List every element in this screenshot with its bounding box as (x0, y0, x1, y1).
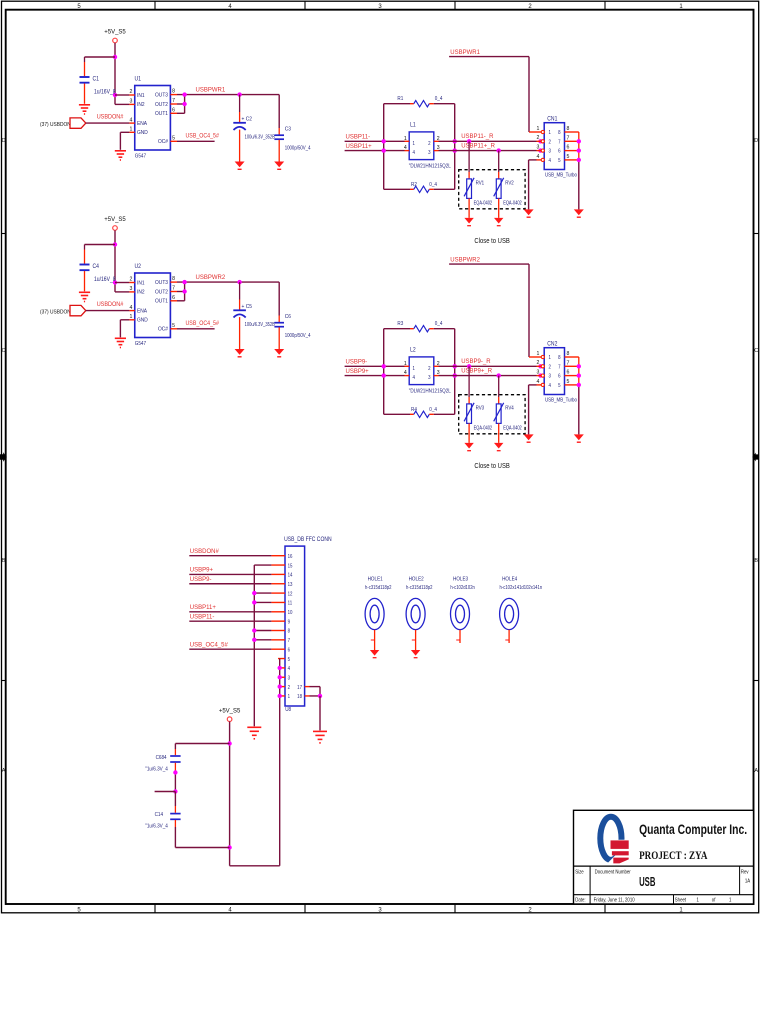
svg-text:USBP9+: USBP9+ (346, 369, 370, 375)
svg-text:USB_MB_Turbo: USB_MB_Turbo (545, 397, 577, 404)
svg-text:"DLW21HN1215Q2L: "DLW21HN1215Q2L (409, 163, 451, 169)
svg-text:4: 4 (537, 379, 540, 385)
svg-text:2: 2 (129, 277, 132, 283)
svg-text:7: 7 (566, 135, 569, 141)
svg-text:3: 3 (288, 675, 291, 681)
svg-text:4: 4 (129, 117, 132, 123)
svg-text:USB_MB_Turbo: USB_MB_Turbo (545, 172, 577, 179)
svg-text:G547: G547 (135, 341, 146, 347)
svg-text:h-c102x141d102x141n: h-c102x141d102x141n (500, 585, 543, 590)
svg-text:GND: GND (137, 130, 148, 136)
svg-text:0_4: 0_4 (429, 406, 437, 412)
svg-text:USBP11-_R: USBP11-_R (461, 134, 494, 140)
svg-text:h-c315d118p2: h-c315d118p2 (406, 585, 433, 590)
svg-text:1: 1 (697, 897, 700, 904)
svg-text:1: 1 (413, 140, 416, 146)
svg-text:8: 8 (566, 126, 569, 132)
svg-text:USBDON#: USBDON# (97, 302, 124, 308)
svg-text:1: 1 (129, 314, 132, 320)
svg-text:ENA: ENA (137, 121, 147, 127)
svg-text:USBDON#: USBDON# (190, 549, 220, 555)
svg-text:1u/16V_8: 1u/16V_8 (94, 277, 116, 283)
svg-text:h-c315d118p2: h-c315d118p2 (365, 585, 392, 590)
svg-text:U2: U2 (135, 264, 141, 270)
svg-text:EQA-0402: EQA-0402 (503, 200, 522, 206)
svg-text:1: 1 (404, 361, 407, 367)
svg-text:3: 3 (428, 150, 431, 156)
svg-text:RV3: RV3 (476, 405, 485, 411)
svg-text:11: 11 (288, 600, 293, 606)
svg-text:CN2: CN2 (547, 341, 557, 347)
svg-text:Size: Size (575, 869, 584, 876)
svg-text:7: 7 (172, 286, 175, 292)
svg-text:0_4: 0_4 (435, 96, 443, 102)
svg-text:Close to USB: Close to USB (474, 463, 510, 471)
svg-text:1A: 1A (745, 878, 751, 885)
svg-text:4: 4 (129, 305, 132, 311)
svg-text:(37) USBDON#: (37) USBDON# (40, 309, 74, 315)
svg-text:+5V_S5: +5V_S5 (219, 708, 241, 714)
svg-text:6: 6 (288, 647, 291, 653)
svg-text:OUT2: OUT2 (155, 289, 168, 295)
svg-text:USB_OC4_5#: USB_OC4_5# (186, 133, 220, 139)
svg-text:3: 3 (549, 148, 552, 154)
svg-text:C3: C3 (285, 126, 291, 132)
svg-text:USBP9-: USBP9- (346, 360, 368, 366)
svg-text:R3: R3 (397, 321, 403, 327)
svg-text:USBPWR1: USBPWR1 (450, 50, 480, 56)
svg-text:"1u/6.3V_4: "1u/6.3V_4 (145, 766, 168, 772)
svg-text:ENA: ENA (137, 308, 147, 314)
svg-text:U8: U8 (285, 707, 291, 713)
svg-text:8: 8 (566, 351, 569, 357)
svg-text:2: 2 (537, 135, 540, 141)
svg-text:1000p/50V_4: 1000p/50V_4 (285, 332, 311, 339)
svg-text:4: 4 (413, 375, 416, 381)
svg-text:3: 3 (537, 370, 540, 376)
svg-text:IN2: IN2 (137, 102, 145, 108)
svg-text:4: 4 (404, 370, 407, 376)
svg-text:"1u/6.3V_4: "1u/6.3V_4 (145, 823, 168, 829)
svg-text:2: 2 (428, 140, 431, 146)
svg-text:5: 5 (288, 656, 291, 662)
svg-text:3: 3 (129, 99, 132, 105)
svg-text:6: 6 (558, 373, 561, 379)
svg-text:HOLE2: HOLE2 (409, 576, 424, 582)
svg-text:of: of (712, 897, 716, 904)
svg-text:+5V_S5: +5V_S5 (104, 30, 126, 36)
svg-text:5: 5 (566, 379, 569, 385)
svg-text:15: 15 (288, 563, 293, 569)
svg-text:USBP9+: USBP9+ (190, 568, 214, 574)
svg-text:8: 8 (288, 628, 291, 634)
svg-text:USB_DB FFC CONN: USB_DB FFC CONN (284, 537, 332, 543)
svg-text:3: 3 (549, 373, 552, 379)
svg-text:2: 2 (549, 364, 552, 370)
svg-text:GND: GND (137, 317, 148, 323)
svg-text:OUT1: OUT1 (155, 111, 168, 117)
svg-text:USBPWR2: USBPWR2 (450, 257, 480, 263)
svg-text:7: 7 (558, 364, 561, 370)
svg-text:C14: C14 (155, 812, 164, 818)
svg-text:4: 4 (549, 383, 552, 389)
svg-text:8: 8 (172, 89, 175, 95)
svg-text:HOLE4: HOLE4 (502, 576, 517, 582)
svg-text:3: 3 (129, 286, 132, 292)
svg-text:1: 1 (404, 136, 407, 142)
svg-text:13: 13 (288, 582, 293, 588)
svg-text:5: 5 (558, 383, 561, 389)
svg-text:6: 6 (172, 107, 175, 113)
svg-text:USB: USB (639, 876, 656, 889)
svg-text:USBP9-: USBP9- (190, 577, 212, 583)
svg-text:1: 1 (413, 365, 416, 371)
svg-text:17: 17 (297, 684, 302, 690)
svg-text:2: 2 (428, 365, 431, 371)
svg-text:4: 4 (549, 158, 552, 164)
svg-text:USBP11+: USBP11+ (346, 144, 373, 150)
svg-text:USBP11-: USBP11- (346, 135, 371, 141)
svg-text:USBP11+: USBP11+ (190, 605, 217, 611)
svg-text:USBP11+_R: USBP11+_R (461, 144, 495, 150)
svg-text:4: 4 (288, 666, 291, 672)
svg-text:A: A (754, 768, 758, 774)
svg-text:7: 7 (172, 98, 175, 104)
svg-text:USB_OC4_5#: USB_OC4_5# (190, 642, 229, 648)
svg-text:3: 3 (428, 375, 431, 381)
svg-text:A: A (2, 768, 6, 774)
svg-text:Date:: Date: (575, 897, 585, 904)
svg-text:USBPWR1: USBPWR1 (196, 88, 226, 94)
svg-text:C: C (754, 348, 758, 354)
svg-text:Close to USB: Close to USB (474, 238, 510, 246)
svg-text:OUT3: OUT3 (155, 92, 168, 98)
svg-text:Document Number: Document Number (595, 869, 631, 876)
svg-text:4: 4 (413, 150, 416, 156)
svg-text:OUT2: OUT2 (155, 101, 168, 107)
svg-text:0_4: 0_4 (435, 321, 443, 327)
svg-text:C4: C4 (93, 264, 99, 270)
svg-text:10: 10 (288, 610, 293, 616)
svg-text:D: D (2, 138, 6, 144)
svg-text:100u/6.3V_352B: 100u/6.3V_352B (245, 134, 276, 141)
svg-text:1: 1 (729, 897, 732, 904)
svg-text:100u/6.3V_352B: 100u/6.3V_352B (245, 321, 276, 328)
svg-text:IN1: IN1 (137, 280, 145, 286)
svg-text:16: 16 (288, 554, 293, 560)
svg-text:U1: U1 (135, 76, 141, 82)
svg-text:5: 5 (558, 158, 561, 164)
svg-text:IN1: IN1 (137, 92, 145, 98)
svg-text:CN1: CN1 (547, 116, 557, 122)
svg-text:Rev: Rev (741, 869, 749, 876)
svg-text:1: 1 (549, 355, 552, 361)
svg-text:6: 6 (566, 370, 569, 376)
svg-text:IN2: IN2 (137, 289, 145, 295)
svg-text:7: 7 (288, 638, 291, 644)
svg-text:USBP11-: USBP11- (190, 614, 215, 620)
svg-text:RV1: RV1 (476, 180, 485, 186)
svg-text:(37) USBDON#: (37) USBDON# (40, 122, 74, 128)
svg-text:HOLE1: HOLE1 (368, 576, 383, 582)
svg-text:"DLW21HN1215Q2L: "DLW21HN1215Q2L (409, 388, 451, 394)
svg-text:EQA-0402: EQA-0402 (503, 425, 522, 431)
svg-text:6: 6 (172, 295, 175, 301)
svg-text:USBP9-_R: USBP9-_R (461, 359, 491, 365)
svg-text:5: 5 (172, 135, 175, 141)
svg-text:+ C2: + C2 (242, 116, 252, 122)
svg-text:RV2: RV2 (505, 180, 514, 186)
svg-text:18: 18 (297, 694, 302, 700)
svg-text:4: 4 (537, 154, 540, 160)
svg-text:5: 5 (172, 323, 175, 329)
svg-text:G547: G547 (135, 153, 146, 159)
svg-text:3: 3 (537, 145, 540, 151)
svg-text:1: 1 (537, 351, 540, 357)
svg-text:8: 8 (172, 276, 175, 282)
svg-text:0_4: 0_4 (429, 181, 437, 187)
svg-text:B: B (754, 558, 758, 564)
svg-text:h-c102d102n: h-c102d102n (450, 585, 475, 590)
svg-text:1: 1 (129, 127, 132, 133)
svg-text:B: B (2, 558, 6, 564)
svg-text:C: C (2, 348, 6, 354)
svg-text:OC#: OC# (158, 326, 168, 332)
svg-text:2: 2 (288, 684, 291, 690)
svg-text:HOLE3: HOLE3 (453, 576, 468, 582)
svg-text:+ C5: + C5 (242, 304, 252, 310)
svg-text:RV4: RV4 (505, 405, 514, 411)
svg-text:4: 4 (404, 145, 407, 151)
svg-text:R1: R1 (397, 96, 403, 102)
svg-text:OUT3: OUT3 (155, 280, 168, 286)
svg-text:USBDON#: USBDON# (97, 114, 124, 120)
svg-text:Sheet: Sheet (675, 897, 687, 904)
svg-text:14: 14 (288, 572, 293, 578)
svg-text:1: 1 (549, 130, 552, 136)
svg-text:7: 7 (558, 139, 561, 145)
svg-text:Friday, June 11, 2010: Friday, June 11, 2010 (594, 897, 635, 904)
svg-text:R2: R2 (411, 181, 417, 187)
svg-text:OC#: OC# (158, 139, 168, 145)
svg-text:C6: C6 (285, 314, 291, 320)
svg-text:12: 12 (288, 591, 293, 597)
svg-text:EQA-0402: EQA-0402 (474, 200, 493, 206)
svg-text:2: 2 (129, 89, 132, 95)
svg-text:6: 6 (566, 145, 569, 151)
svg-text:L1: L1 (410, 122, 416, 128)
svg-text:USB_OC4_5#: USB_OC4_5# (186, 321, 220, 327)
svg-text:PROJECT : ZYA: PROJECT : ZYA (639, 850, 708, 862)
svg-text:7: 7 (566, 360, 569, 366)
svg-text:EQA-0402: EQA-0402 (474, 425, 493, 431)
svg-text:USBPWR2: USBPWR2 (196, 275, 226, 281)
svg-text:USBP9+_R: USBP9+_R (461, 369, 493, 375)
svg-text:1u/16V_8: 1u/16V_8 (94, 89, 116, 95)
svg-text:1: 1 (288, 694, 291, 700)
svg-text:D: D (754, 138, 758, 144)
svg-text:9: 9 (288, 619, 291, 625)
svg-text:6: 6 (558, 148, 561, 154)
svg-text:8: 8 (558, 130, 561, 136)
svg-text:Quanta Computer Inc.: Quanta Computer Inc. (639, 822, 747, 838)
svg-text:OUT1: OUT1 (155, 298, 168, 304)
svg-text:L2: L2 (410, 347, 416, 353)
svg-text:8: 8 (558, 355, 561, 361)
svg-text:1: 1 (537, 126, 540, 132)
svg-text:+5V_S5: +5V_S5 (104, 217, 126, 223)
svg-text:5: 5 (566, 154, 569, 160)
svg-text:C1: C1 (93, 76, 99, 82)
svg-text:2: 2 (549, 139, 552, 145)
svg-text:1000p/50V_4: 1000p/50V_4 (285, 145, 311, 152)
svg-text:C684: C684 (156, 754, 167, 760)
svg-text:R4: R4 (411, 406, 417, 412)
svg-text:2: 2 (537, 360, 540, 366)
